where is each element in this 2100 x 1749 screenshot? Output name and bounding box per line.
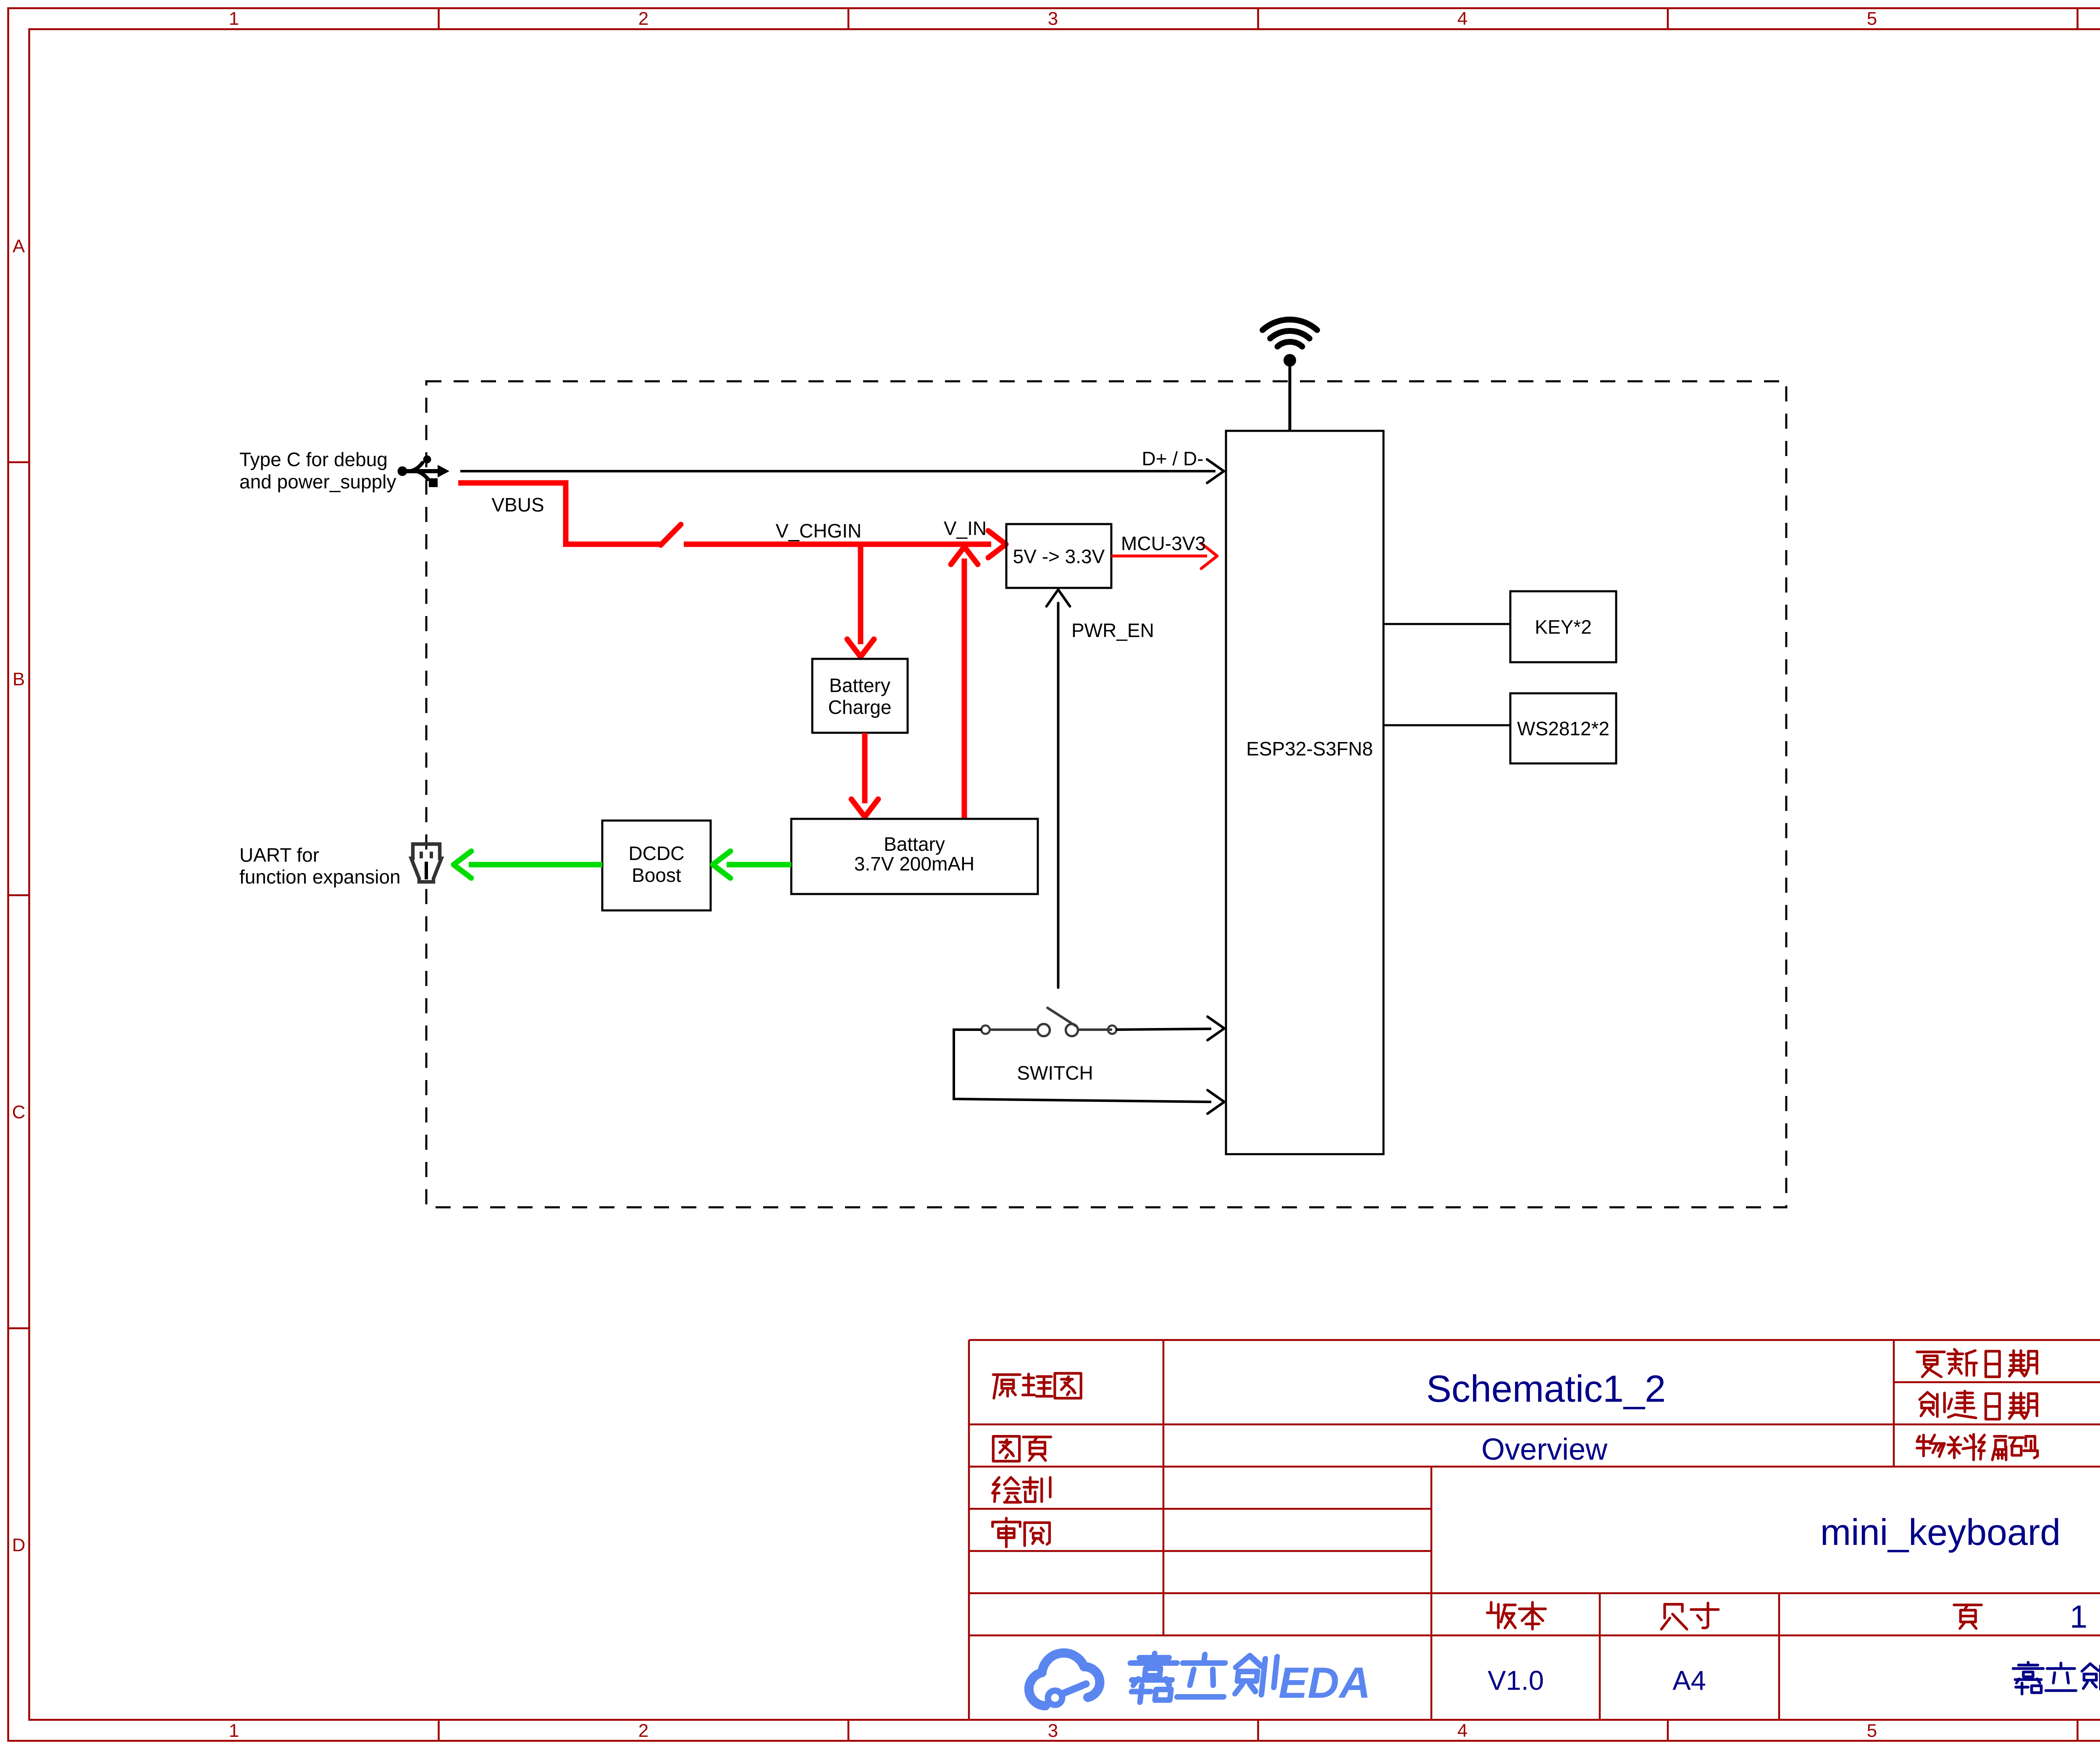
wire switch lower loop to ESP32 <box>954 1030 1211 1102</box>
svg-text:KEY*2: KEY*2 <box>1535 616 1592 638</box>
svg-text:DCDC: DCDC <box>629 842 685 864</box>
wire (green) DCDC Boost to UART connector <box>469 862 602 868</box>
block: Battery Charge <box>812 659 908 733</box>
switch break in VBUS line <box>661 524 681 545</box>
svg-text:3.7V 200mAH: 3.7V 200mAH <box>854 853 974 875</box>
svg-text:5: 5 <box>1867 1720 1877 1741</box>
svg-text:1: 1 <box>229 8 239 29</box>
block: Battary 3.7V 200mAH <box>791 819 1038 894</box>
wire ESP32 to WS2812*2 <box>1383 724 1510 726</box>
svg-text:ESP32-S3FN8: ESP32-S3FN8 <box>1246 738 1373 760</box>
svg-text:function expansion: function expansion <box>239 866 401 888</box>
svg-text:EDA: EDA <box>1278 1659 1371 1707</box>
wire PWR_EN up into regulator <box>1057 603 1060 988</box>
svg-text:B: B <box>13 669 25 690</box>
dashed module boundary box <box>426 381 1786 1207</box>
svg-text:SWITCH: SWITCH <box>1017 1062 1093 1084</box>
wire (red) Battery Charge to Battary <box>862 733 868 803</box>
svg-text:4: 4 <box>1457 8 1467 29</box>
svg-text:2: 2 <box>638 1720 648 1741</box>
svg-text:5: 5 <box>1867 8 1877 29</box>
svg-text:1: 1 <box>229 1720 239 1741</box>
svg-text:A4: A4 <box>1672 1665 1706 1696</box>
svg-text:C: C <box>12 1102 26 1122</box>
wire MCU-3V3 (red) regulator to ESP32 <box>1111 555 1207 558</box>
wire (red) V_CHGIN branch down to Battery Charge <box>858 544 864 644</box>
wire V_CHGIN (red) from switch to 5V regulator <box>684 542 991 547</box>
svg-text:VBUS: VBUS <box>491 494 544 516</box>
svg-text:and power_supply: and power_supply <box>239 471 396 493</box>
svg-text:WS2812*2: WS2812*2 <box>1517 718 1609 739</box>
svg-text:D: D <box>12 1535 26 1555</box>
wire VBUS (red) from USB to switch <box>458 483 661 544</box>
svg-text:A: A <box>13 236 25 257</box>
svg-text:5V -> 3.3V: 5V -> 3.3V <box>1013 545 1105 567</box>
svg-text:V1.0: V1.0 <box>1488 1665 1544 1696</box>
svg-text:Boost: Boost <box>632 864 681 886</box>
svg-text:Schematic1_2: Schematic1_2 <box>1426 1368 1666 1410</box>
block: WS2812*2 <box>1510 693 1616 763</box>
block: KEY*2 <box>1510 591 1616 662</box>
switch: power SPST <box>982 1008 1117 1036</box>
block: 5V to 3.3V regulator <box>1006 524 1111 588</box>
svg-text:4: 4 <box>1457 1720 1467 1741</box>
connector: USB Type-C for debug and power supply <box>398 456 450 488</box>
svg-text:Battery: Battery <box>829 674 890 696</box>
svg-text:Type C for debug: Type C for debug <box>239 448 388 470</box>
svg-text:D+ / D-: D+ / D- <box>1142 448 1204 469</box>
svg-text:V_CHGIN: V_CHGIN <box>776 520 861 542</box>
wire D+/D- from USB to ESP32 <box>460 470 1215 472</box>
antenna: WiFi symbol on ESP32 <box>1263 320 1317 346</box>
svg-text:2: 2 <box>638 8 648 29</box>
svg-text:1: 1 <box>2070 1599 2087 1635</box>
svg-text:Charge: Charge <box>828 696 892 718</box>
svg-text:3: 3 <box>1048 1720 1058 1741</box>
wire ESP32 to KEY*2 <box>1383 623 1510 625</box>
svg-text:V_IN: V_IN <box>944 517 987 539</box>
svg-text:3: 3 <box>1048 8 1058 29</box>
wire V_IN (red) from Battary up to regulator input <box>962 559 967 819</box>
svg-text:UART for: UART for <box>239 844 319 866</box>
wire switch to ESP32 (upper) <box>1116 1029 1211 1030</box>
svg-text:mini_keyboard: mini_keyboard <box>1820 1511 2061 1553</box>
svg-text:PWR_EN: PWR_EN <box>1071 619 1154 641</box>
svg-text:Battary: Battary <box>884 833 945 855</box>
wire (green) Battary to DCDC Boost <box>727 862 791 868</box>
svg-text:MCU-3V3: MCU-3V3 <box>1121 532 1206 554</box>
connector: UART for function expansion <box>411 844 441 882</box>
block: DCDC Boost <box>602 821 711 910</box>
block: ESP32-S3FN8 MCU <box>1226 431 1383 1154</box>
svg-text:Overview: Overview <box>1481 1433 1608 1466</box>
